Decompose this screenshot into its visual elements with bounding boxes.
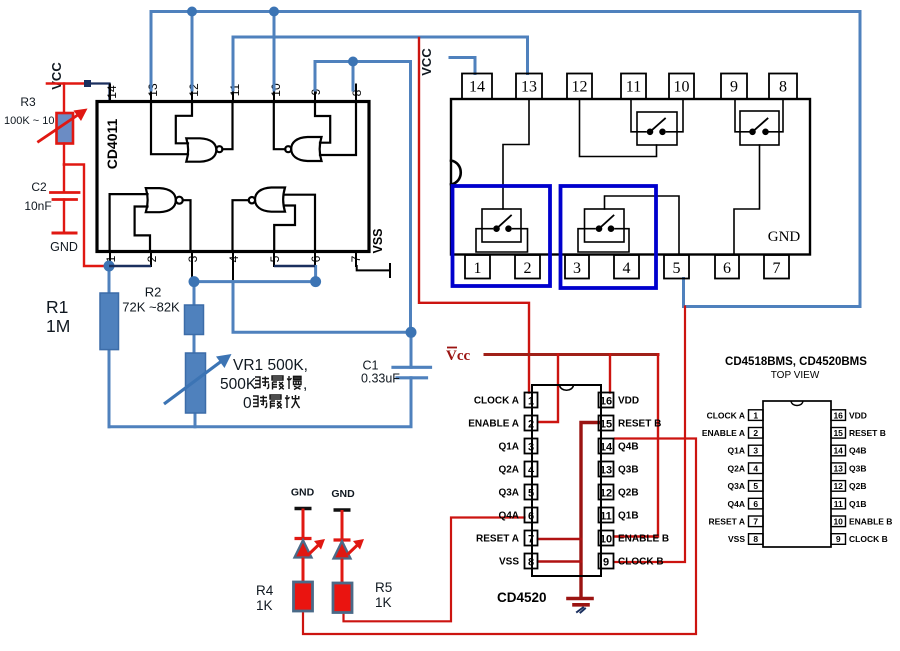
wire red riser from net B down to CLOCK A [419,38,529,393]
svg-text:4: 4 [528,465,535,477]
capacitor C2 10nF [51,165,80,233]
svg-text:14: 14 [833,446,843,456]
node dot pin10/top rail [269,7,279,17]
svg-text:14: 14 [469,79,485,96]
IC U2 notch [451,161,461,185]
svg-text:10: 10 [269,83,283,97]
svg-text:12: 12 [187,83,201,97]
pinout pin rows [749,410,846,545]
U3 pin box 9 [599,554,614,569]
svg-text:0: 0 [243,395,252,412]
svg-text:Q2B: Q2B [618,488,639,499]
U3 pin box 1 [525,393,538,408]
U3 pin box 8 [525,554,538,569]
svg-text:6: 6 [753,499,758,509]
svg-text:12: 12 [600,488,612,500]
wire Q4A (pin 6) to R5 [344,518,525,622]
pin box 4 [614,255,639,279]
pin box 7 [764,255,789,279]
svg-text:Q2A: Q2A [728,463,745,473]
svg-text:C1: C1 [363,359,379,373]
wire R2 to VR1 [193,335,196,354]
svg-text:Q3A: Q3A [728,481,745,491]
pin box 9 [721,74,747,100]
svg-text:VCC: VCC [419,48,434,76]
svg-text:CLOCK A: CLOCK A [707,410,745,420]
svg-text:Q3B: Q3B [849,463,866,473]
ground squiggle mark [577,608,585,613]
svg-text:16: 16 [600,396,612,408]
pin stubs bottom (1..7) [110,252,356,282]
U3 pin box 13 [599,462,614,477]
wire RESET A (pin 7) to ground net [538,538,581,541]
resistor R1 1M [100,293,119,350]
svg-text:ENABLE A: ENABLE A [468,419,519,430]
svg-text:1: 1 [474,260,482,277]
svg-text:Q3B: Q3B [618,465,639,476]
U3 pin box 4 [525,462,538,477]
pin box 11 [621,74,646,100]
resistor R5 1K [333,583,352,613]
svg-text:7: 7 [349,255,363,262]
svg-text:7: 7 [528,534,534,546]
IC U2 quad switch body [451,99,810,255]
highlight box pins 1/2 (blue) [453,186,551,286]
svg-text:VSS: VSS [499,557,519,568]
ground (below C2) [53,232,76,235]
svg-text:1K: 1K [375,595,392,610]
svg-text:1K: 1K [256,598,273,613]
svg-text:R4: R4 [256,583,274,598]
svg-text:R1: R1 [46,297,68,317]
svg-text:10: 10 [833,517,843,527]
svg-text:1: 1 [528,396,534,408]
pin box 1 [465,255,490,279]
svg-text:CD4518BMS, CD4520BMS: CD4518BMS, CD4520BMS [725,356,867,368]
wire VCC bar to pin 14 of CD4011 (dark navy hook) [84,80,110,102]
U3 pin box 14 [599,439,614,454]
LED D2 [334,510,365,583]
resistor R4 1K [294,582,313,611]
ground (CD4520 earth symbol) [568,597,592,601]
svg-text:RESET A: RESET A [708,517,745,527]
svg-text:2: 2 [753,428,758,438]
svg-text:5: 5 [753,481,758,491]
svg-text:CLOCK A: CLOCK A [474,396,519,407]
svg-text:ENABLE B: ENABLE B [618,534,669,545]
svg-text:TOP VIEW: TOP VIEW [771,370,820,381]
svg-text:3: 3 [186,255,200,262]
label Vcc (red, near CD4520) [446,348,470,365]
svg-text:9: 9 [730,79,738,96]
svg-text:10nF: 10nF [24,199,51,213]
svg-text:Q3A: Q3A [498,488,519,499]
switch SWD (pins 3/4) [578,209,629,252]
node VSS (pin 7 termination) [357,264,390,277]
svg-text:14: 14 [105,85,119,99]
U3 pin box 3 [525,439,538,454]
wire pin 8 drop [352,62,355,91]
svg-text:13: 13 [600,465,612,477]
svg-text:RESET B: RESET B [618,419,661,430]
wire R1 to bottom rail [108,350,111,427]
svg-text:13: 13 [146,83,160,97]
svg-text:4: 4 [623,260,631,277]
switch SWB (pins 9/8) [735,99,783,145]
svg-text:10: 10 [674,79,690,96]
svg-text:Q1A: Q1A [498,442,519,453]
gate U1C (bottom-left NAND) [110,188,191,251]
svg-text:500K: 500K [220,376,257,393]
pin box 3 [565,255,589,279]
node dot pin12/top rail [187,7,197,17]
label 0 time fastest (line 3) [243,395,300,412]
svg-text:1M: 1M [46,316,70,336]
svg-text:CD4520: CD4520 [497,590,547,605]
node dot C1/net C [406,327,417,338]
svg-text:VSS: VSS [728,534,745,544]
gate U1B (top-right NAND, mirrored) [274,102,356,162]
svg-text:2: 2 [528,419,534,431]
resistor R2 72K~82K [185,305,204,335]
switch SWA (pins 11/10) [631,99,683,145]
svg-text:C2: C2 [31,180,47,194]
wire net C: pins 9/8 down right side to C1 node [315,62,411,333]
pin stubs top (14,13,12,11,10,9,8) [110,85,356,102]
svg-text:Q2B: Q2B [849,481,866,491]
svg-text:,: , [303,376,307,393]
wire pin 12 to SWA control [580,99,657,157]
svg-text:Q1A: Q1A [728,446,745,456]
svg-text:CD4011: CD4011 [104,118,120,169]
wire VSS (pin 8) to ground net [538,560,581,563]
svg-text:4: 4 [227,255,241,262]
svg-text:15: 15 [833,428,843,438]
gate U1D (bottom-right NAND, mirrored) [233,188,316,252]
svg-text:8: 8 [528,557,534,569]
wire rail to VDD (pin 16) [609,355,611,393]
U3 pin box 6 [525,508,538,523]
svg-text:12: 12 [833,481,843,491]
svg-text:GND: GND [331,488,355,500]
svg-text:5: 5 [528,488,534,500]
wire pin1-pin2 tie (navy) [109,265,151,267]
pin box 2 [515,255,540,279]
svg-text:7: 7 [753,517,758,527]
svg-text:11: 11 [626,79,641,96]
svg-text:10: 10 [600,534,612,546]
wire pin 1 to R1 [108,266,111,293]
svg-text:11: 11 [600,511,612,523]
svg-text:R3: R3 [20,95,36,109]
wire rail to ENABLE B (pin 10) [615,355,659,537]
svg-text:8: 8 [753,534,758,544]
IC U1 CD4011 body [97,102,369,252]
resistor VR1 (variable) [186,353,206,413]
pin box 6 [715,255,739,279]
U3 pin box 16 [599,393,614,408]
IC U3 CD4520 [525,385,614,576]
U3 body [532,385,601,576]
svg-text:3: 3 [573,260,581,277]
wire net B: pin 11 to switch IC pin 13 [233,37,528,90]
wire switch pin 5 to CLOCK B (pin 9) [614,307,685,563]
label 500K time slowest (line 2) [220,376,307,393]
pin box 14 [462,74,492,100]
svg-text:ENABLE B: ENABLE B [849,517,892,527]
wire bottom rail [109,378,411,427]
wire VCC stub to switch IC pin 14 [450,58,475,74]
svg-text:16: 16 [833,410,843,420]
gate U1A (top-left NAND) [151,102,233,162]
svg-text:VCC: VCC [49,62,64,90]
wire R3/C2 junction to CD4011 pin 1 (red) [64,165,106,267]
resistor R3 (variable, 100K ~ 10) [39,84,88,165]
svg-text:11: 11 [228,83,242,96]
svg-text:3: 3 [753,446,758,456]
svg-text:15: 15 [600,419,612,431]
node dot pin6 [310,276,321,287]
svg-text:11: 11 [834,499,843,509]
wire VR1 to bottom rail [194,413,197,427]
pinout diagram CD4518BMS/CD4520BMS [702,356,893,547]
svg-text:VSS: VSS [371,228,385,253]
svg-text:VR1 500K,: VR1 500K, [233,357,308,374]
svg-text:12: 12 [572,79,588,96]
svg-text:9: 9 [603,557,609,569]
svg-text:100K ~ 10: 100K ~ 10 [4,115,54,127]
wire pin 3 - pin 6 tie [194,267,316,282]
U3 pin box 2 [525,416,538,431]
capacitor C1 0.33uF [393,367,431,378]
svg-text:72K ~82K: 72K ~82K [122,300,180,315]
svg-text:ENABLE A: ENABLE A [702,428,745,438]
node dot pin1 [104,261,115,272]
wire pin 10 drop [273,12,276,91]
svg-text:6: 6 [528,511,534,523]
node dot pin3 [189,276,200,287]
pin box 8 [769,74,797,100]
wire C1 top to node [410,332,413,367]
svg-text:Q4B: Q4B [618,442,639,453]
wire SWD control to pin 5 [605,196,680,255]
U3 pin box 15 [599,416,614,431]
U3 pin box 11 [599,508,614,523]
U3 pin box 12 [599,485,614,500]
LED D1 [295,509,326,583]
svg-text:7: 7 [773,260,781,277]
svg-text:GND: GND [768,229,801,245]
svg-text:R5: R5 [375,580,392,595]
svg-text:13: 13 [521,79,537,96]
svg-text:VDD: VDD [618,396,639,407]
svg-text:2: 2 [145,255,159,262]
wire SWB control to pin 6 [734,145,760,255]
svg-text:Q4A: Q4A [498,511,519,522]
svg-text:Q2A: Q2A [498,465,519,476]
wire pin5-pin6 tie (navy) [274,265,315,267]
wire RESET B (pin 15) to internal ground [581,423,599,599]
svg-text:Q4B: Q4B [849,446,866,456]
svg-text:RESET B: RESET B [849,428,886,438]
pinout body [763,401,831,547]
svg-text:RESET A: RESET A [476,534,519,545]
U3 pin box 10 [599,531,614,546]
svg-text:CLOCK B: CLOCK B [849,534,888,544]
svg-text:R2: R2 [145,285,162,300]
pin box 13 [516,74,542,100]
wire pin3 net down to R2 [193,282,196,305]
svg-text:8: 8 [779,79,787,96]
wire VCC rail (dark red) [485,353,658,356]
svg-text:0.33uF: 0.33uF [361,372,400,386]
pinout notch [791,401,803,406]
pin box 12 [567,74,592,100]
switch SWC (pins 1/2) [476,209,528,252]
svg-text:CLOCK B: CLOCK B [618,557,664,568]
svg-text:VDD: VDD [849,410,867,420]
svg-text:3: 3 [528,442,534,454]
svg-text:GND: GND [50,240,78,254]
svg-text:GND: GND [291,487,315,499]
node dot pin8/net C [348,57,358,67]
svg-text:Vcc: Vcc [446,348,470,364]
U3 pin box 5 [525,485,538,500]
svg-text:Q1B: Q1B [618,511,639,522]
U3 pin box 7 [525,531,538,546]
wire net A: CD4011 pin13 top rail to right side [151,12,860,307]
svg-text:6: 6 [723,260,731,277]
VR1 arrow [164,360,223,404]
svg-text:14: 14 [600,442,613,454]
svg-text:9: 9 [836,534,841,544]
svg-text:13: 13 [833,463,843,473]
node VCC (left supply) [47,62,86,90]
wire rail to ENABLE A (pin 2) [538,355,558,423]
wire Q4B (pin 14) to R4 via right loop [303,439,696,635]
wire pin 12 drop [191,12,194,91]
svg-text:2: 2 [524,260,532,277]
svg-text:Q1B: Q1B [849,499,866,509]
svg-text:5: 5 [268,255,282,262]
pin box 5 [664,255,689,279]
svg-text:1: 1 [753,410,758,420]
svg-text:Q4A: Q4A [728,499,745,509]
svg-text:4: 4 [753,463,758,473]
U3 notch [560,385,574,390]
highlight box pins 3/4 (blue) [561,186,657,288]
wire C1 node to pins 3/6 net [233,282,411,333]
svg-text:6: 6 [309,255,323,262]
pin box 10 [669,74,694,100]
svg-text:5: 5 [673,260,681,277]
wire pin 13 to SWC control [503,99,529,209]
